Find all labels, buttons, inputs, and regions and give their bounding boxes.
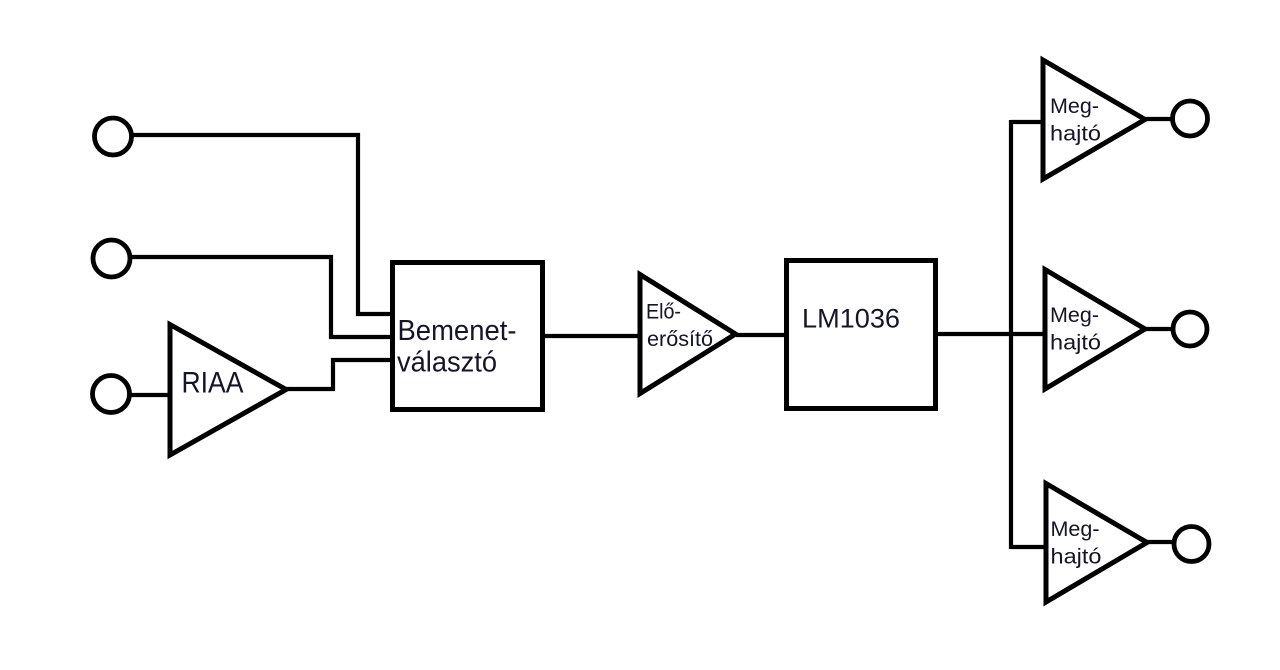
svg-text:Meg-: Meg- [1050,95,1099,118]
svg-text:Meg-: Meg- [1050,304,1099,327]
svg-text:erősítő: erősítő [647,328,713,351]
svg-text:hajtó: hajtó [1050,332,1101,355]
svg-text:Bemenet-: Bemenet- [398,315,517,347]
svg-text:RIAA: RIAA [182,367,244,400]
svg-text:választó: választó [397,347,497,379]
svg-text:hajtó: hajtó [1051,546,1102,569]
svg-text:LM1036: LM1036 [802,304,900,334]
svg-text:Meg-: Meg- [1051,518,1100,541]
svg-text:hajtó: hajtó [1050,122,1101,145]
svg-text:Elő-: Elő- [646,301,681,324]
